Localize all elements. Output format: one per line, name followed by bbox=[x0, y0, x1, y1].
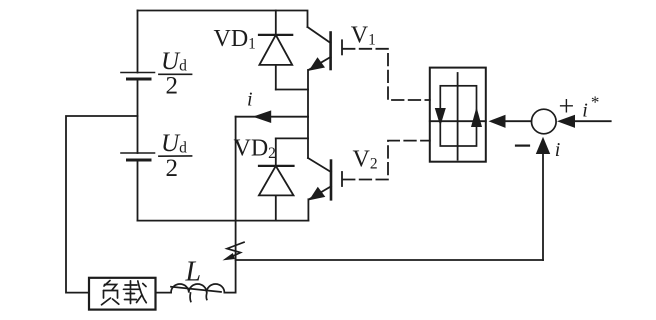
svg-text:2: 2 bbox=[166, 155, 179, 182]
diode VD1 branch wire upper bbox=[275, 11, 277, 35]
wire V1 emitter to midpoint bbox=[307, 70, 309, 117]
wire output branch vertical (load current) bbox=[235, 117, 237, 293]
diode VD1 bbox=[259, 35, 292, 90]
wire top rail (positive bus) bbox=[138, 11, 308, 28]
label Ud/2 lower bbox=[159, 130, 192, 182]
transistor V2 (IGBT) bbox=[308, 158, 342, 200]
hysteresis loop bbox=[440, 86, 476, 146]
hysteresis loop arrow up bbox=[471, 107, 482, 127]
inductor L coil bbox=[171, 284, 224, 302]
label Ud/2 upper bbox=[159, 48, 192, 100]
hysteresis loop arrow down bbox=[435, 108, 446, 126]
diode VD2 branch wire bbox=[275, 138, 277, 166]
wire current feedback horizontal bbox=[236, 259, 543, 261]
dashed gate wire V2 bbox=[343, 141, 430, 180]
wire diode VD2 top connection bbox=[276, 137, 308, 139]
wire left bus upper segment bbox=[137, 11, 139, 73]
arrowhead into comparator bbox=[489, 115, 506, 128]
svg-text:V1: V1 bbox=[351, 22, 376, 48]
wire bottom rail (negative bus) bbox=[138, 220, 309, 222]
dashed gate wire V1 bbox=[343, 49, 430, 100]
wire between batteries bbox=[137, 79, 139, 153]
wire load to inductor bbox=[156, 292, 172, 294]
label 载 (load char 2) bbox=[124, 281, 147, 304]
arrowhead feedback into summing junction bbox=[536, 137, 550, 154]
svg-text:+: + bbox=[559, 91, 575, 122]
svg-text:Ud: Ud bbox=[161, 48, 187, 75]
svg-text:i: i bbox=[555, 139, 561, 161]
wire output current line with arrow i bbox=[236, 116, 308, 118]
svg-text:2: 2 bbox=[166, 73, 179, 100]
arrowhead i* input bbox=[557, 115, 575, 128]
wire V2 emitter to bottom rail bbox=[307, 199, 309, 220]
voltage source upper battery Ud/2 bbox=[121, 73, 155, 80]
current sensor zigzag arrow bbox=[223, 242, 245, 260]
svg-text:VD1: VD1 bbox=[214, 26, 256, 53]
wire battery midpoint tap bbox=[66, 116, 138, 293]
svg-text:L: L bbox=[185, 256, 202, 287]
wire midpoint to V2 collector bbox=[307, 117, 309, 158]
label 负 (load char 1) bbox=[102, 281, 119, 305]
transistor V1 (IGBT) bbox=[308, 27, 343, 71]
wire inductor to output branch corner bbox=[224, 292, 235, 294]
svg-text:V2: V2 bbox=[353, 147, 378, 173]
hysteresis comparator block bbox=[430, 68, 486, 162]
load box 负载 bbox=[89, 278, 156, 310]
wire left bus lower segment bbox=[137, 160, 139, 221]
svg-text:VD2: VD2 bbox=[234, 135, 276, 162]
wire summing junction to comparator bbox=[504, 120, 531, 122]
wire diode VD1 bottom connection bbox=[276, 89, 308, 91]
svg-text:Ud: Ud bbox=[161, 130, 187, 157]
svg-text:i*: i* bbox=[582, 93, 599, 122]
svg-text:i: i bbox=[247, 88, 253, 110]
arrowhead current i bbox=[253, 110, 272, 123]
label minus at summing junction bbox=[516, 145, 529, 147]
wire current feedback vertical bbox=[542, 154, 544, 260]
wire i* input bbox=[575, 120, 611, 122]
diode VD2 bbox=[259, 166, 294, 221]
hysteresis symbol horizontal axis bbox=[430, 120, 486, 122]
hysteresis symbol vertical axis bbox=[457, 73, 459, 160]
voltage source lower battery Ud/2 bbox=[121, 153, 155, 160]
summing junction circle bbox=[532, 109, 557, 134]
